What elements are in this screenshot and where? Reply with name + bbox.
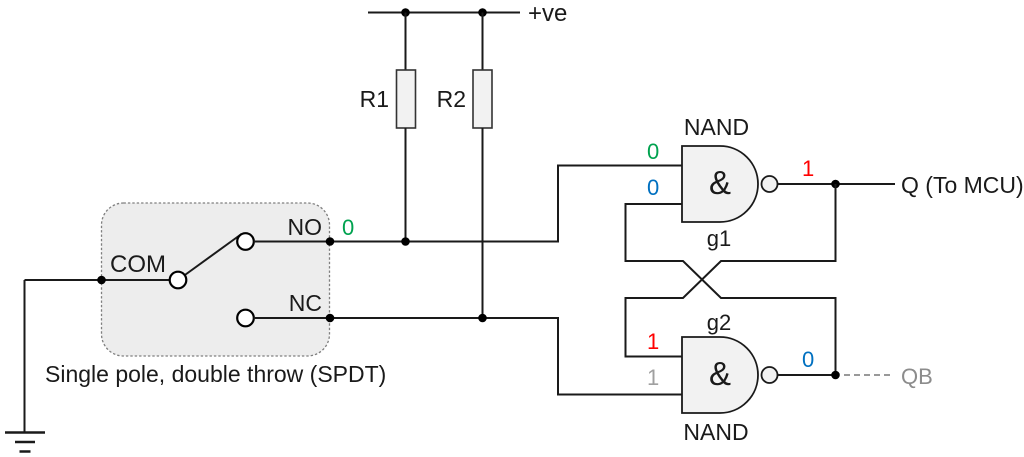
node junction NC to R2 — [478, 314, 487, 323]
svg-text:1: 1 — [802, 156, 814, 181]
svg-text:NO: NO — [288, 214, 323, 240]
svg-text:0: 0 — [647, 139, 659, 164]
svg-text:1: 1 — [647, 329, 659, 354]
wire R1 bottom leg — [405, 128, 407, 242]
svg-text:COM: COM — [110, 251, 166, 278]
svg-text:+ve: +ve — [528, 0, 567, 27]
svg-text:R1: R1 — [360, 86, 389, 112]
svg-text:Single pole, double throw (SPD: Single pole, double throw (SPDT) — [45, 361, 386, 387]
node junction QB — [831, 371, 840, 380]
switch contact COM pole — [170, 272, 187, 289]
switch contact NO — [237, 233, 254, 250]
svg-text:Q (To MCU): Q (To MCU) — [901, 172, 1024, 198]
ground — [5, 433, 45, 452]
node junction R2 to +ve rail — [478, 8, 487, 17]
wire R2 top leg — [482, 13, 484, 71]
svg-text:NC: NC — [289, 290, 322, 316]
wire R1 top leg — [405, 13, 407, 71]
svg-text:QB: QB — [901, 364, 933, 389]
svg-text:0: 0 — [342, 215, 354, 240]
wire NO net — [254, 166, 683, 242]
svg-text:&: & — [709, 355, 731, 392]
svg-text:1: 1 — [647, 365, 659, 390]
node junction NC at enclosure — [326, 314, 335, 323]
svg-text:NAND: NAND — [683, 419, 748, 445]
gate g1 NAND body — [682, 146, 758, 222]
switch contact NC — [237, 310, 254, 327]
wire QB dashed stub — [844, 374, 890, 376]
svg-text:0: 0 — [802, 347, 814, 372]
gate g2 inversion bubble — [762, 367, 778, 383]
switch pole lever — [184, 234, 242, 276]
svg-text:&: & — [709, 164, 731, 201]
node junction R1 to +ve rail — [401, 8, 410, 17]
resistor R2 — [473, 70, 492, 128]
wire NC net — [254, 318, 683, 395]
wire feedback Q to g2 input — [626, 184, 836, 357]
svg-text:0: 0 — [647, 175, 659, 200]
svg-text:g1: g1 — [707, 226, 731, 251]
node junction Q — [831, 180, 840, 189]
wire ground lead — [24, 280, 26, 433]
gate g1 inversion bubble — [762, 176, 778, 192]
gate g2 NAND body — [682, 337, 758, 413]
node junction NO to R1 — [401, 237, 410, 246]
node junction COM — [97, 276, 106, 285]
svg-text:g2: g2 — [707, 310, 731, 335]
wire R2 bottom leg — [482, 128, 484, 318]
svg-text:R2: R2 — [437, 86, 466, 112]
wire g2 output to QB — [778, 374, 836, 376]
wire +ve supply rail — [368, 12, 520, 14]
wire feedback QB to g1 input — [626, 204, 836, 375]
wire COM entry — [25, 279, 171, 281]
resistor R1 — [397, 70, 416, 128]
svg-text:NAND: NAND — [684, 114, 749, 140]
node junction NO at enclosure — [326, 237, 335, 246]
wire g1 output to Q — [778, 183, 896, 185]
switch SW1 SPDT enclosure — [102, 203, 330, 356]
